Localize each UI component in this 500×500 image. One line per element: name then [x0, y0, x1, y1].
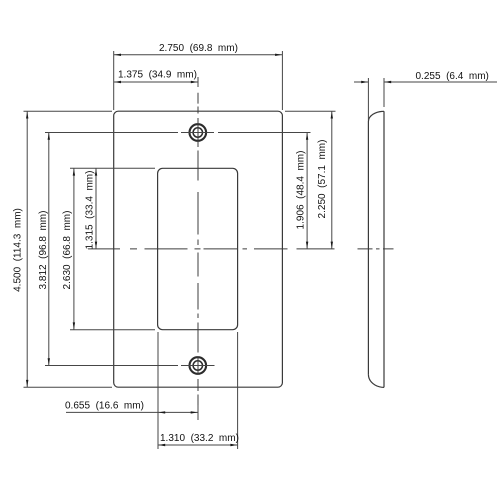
svg-text:1.310 (33.2 mm): 1.310 (33.2 mm)	[160, 433, 239, 444]
arrowhead 4.500 bottom	[26, 380, 28, 387]
arrowhead 2.750 right	[275, 54, 282, 56]
dimension line 3.812 screw spacing	[48, 133, 50, 366]
extension line opening left below plate	[157, 332, 159, 449]
arrowhead 1.906 bottom	[306, 242, 308, 249]
extension line top screw center left	[45, 132, 178, 134]
extension line plate top left	[24, 110, 113, 112]
arrowhead 0.255 right	[384, 81, 391, 83]
extension line bottom screw center left	[45, 365, 178, 367]
top screw horizontal center mark	[181, 132, 214, 134]
arrowhead 2.630 top	[73, 169, 75, 176]
extension line plate bottom left	[24, 386, 113, 388]
extension stub at centerline for 1.375 dim	[197, 77, 199, 87]
vertical centerline	[197, 93, 199, 420]
arrowhead 3.812 top	[48, 133, 50, 140]
dimension line 1.906 screw to center	[306, 133, 308, 249]
dimension line 0.255 right segment	[384, 81, 497, 83]
arrowhead 0.655 right	[191, 411, 198, 413]
arrowhead 0.255 left	[361, 81, 368, 83]
dimension line 1.310 opening width	[158, 444, 238, 446]
arrowhead 1.315 top	[95, 169, 97, 176]
bottom screw hole outer circle	[190, 357, 207, 374]
arrowhead 1.375 left	[114, 81, 121, 83]
arrowhead 1.906 top	[306, 133, 308, 140]
dimension line 0.655 with leader	[66, 411, 198, 413]
bottom screw hole inner circle	[193, 361, 202, 370]
extension line plate right for width dim	[281, 51, 283, 110]
extension line plate top right	[285, 110, 336, 112]
extension line opening top	[70, 167, 155, 169]
svg-text:1.375 (34.9 mm): 1.375 (34.9 mm)	[118, 70, 197, 81]
svg-text:0.655 (16.6 mm): 0.655 (16.6 mm)	[65, 401, 144, 412]
svg-text:1.906 (48.4 mm): 1.906 (48.4 mm)	[295, 151, 306, 230]
side view top corner arc	[368, 111, 384, 121]
extension line opening bottom	[70, 329, 155, 331]
arrowhead 2.750 left	[114, 54, 121, 56]
svg-text:3.812 (96.8 mm): 3.812 (96.8 mm)	[38, 211, 49, 290]
arrowhead 2.250 top	[331, 112, 333, 119]
dimension line 0.255 left segment	[354, 81, 368, 83]
svg-text:2.250 (57.1 mm): 2.250 (57.1 mm)	[317, 140, 328, 219]
arrowhead 2.630 bottom	[73, 322, 75, 329]
extension line side view front face	[367, 78, 369, 120]
dimension line 4.500 overall height	[26, 111, 28, 387]
extension line side view back face	[383, 78, 385, 107]
svg-text:2.750 (69.8 mm): 2.750 (69.8 mm)	[159, 43, 238, 54]
extension line top screw center right	[218, 132, 311, 134]
side view back edge	[383, 111, 385, 387]
svg-text:0.255 (6.4 mm): 0.255 (6.4 mm)	[416, 71, 489, 82]
extension stub at centerline for 0.655 dim	[197, 405, 199, 420]
svg-text:4.500 (114.3 mm): 4.500 (114.3 mm)	[13, 208, 24, 292]
dimension line 2.630 opening height	[73, 168, 75, 329]
side view front edge	[367, 122, 369, 375]
dimension line 2.250 top to center	[331, 111, 333, 249]
rectangular opening	[158, 168, 238, 329]
side view bottom corner arc	[368, 374, 384, 387]
arrowhead 2.250 bottom	[331, 242, 333, 249]
dimension line 1.375 half width	[114, 81, 198, 83]
arrowhead 4.500 top	[26, 112, 28, 119]
arrowhead 3.812 bottom	[48, 358, 50, 365]
arrowhead 0.655 left	[158, 411, 165, 413]
arrowhead 1.310 left	[158, 444, 165, 446]
dimension line 1.315 opening half height	[95, 168, 97, 249]
svg-text:1.315 (33.4 mm): 1.315 (33.4 mm)	[85, 171, 96, 250]
extension line plate left for width dims	[113, 51, 115, 110]
top screw hole outer circle	[190, 124, 207, 141]
dimension line 2.750 overall width	[114, 54, 283, 56]
svg-text:2.630 (66.8 mm): 2.630 (66.8 mm)	[62, 211, 73, 290]
side view centerline	[358, 248, 394, 250]
arrowhead 1.375 right	[191, 81, 198, 83]
top screw hole inner circle	[193, 128, 202, 137]
arrowhead 1.315 bottom	[95, 242, 97, 249]
arrowhead 1.310 right	[230, 444, 237, 446]
extension line opening right below plate	[237, 332, 239, 449]
horizontal centerline	[88, 248, 335, 250]
bottom screw horizontal center mark	[181, 365, 215, 367]
wall plate outline (front view)	[114, 111, 283, 387]
